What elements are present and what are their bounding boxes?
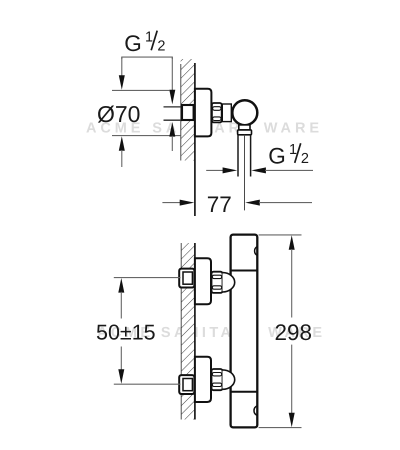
escutcheon flange (top drawing) (195, 89, 212, 137)
lower inlet dome (223, 370, 235, 389)
label 298 (275, 320, 313, 345)
dimension 77 : right arrow at hose axis (245, 200, 312, 206)
dimension 77 : left arrow at wall face (162, 200, 194, 206)
G1/2 wall-thread upper arrow (down, bracket right leg) (169, 57, 175, 104)
watermark bottom (97, 325, 322, 341)
hose neck below ball (239, 125, 250, 130)
G1/2 top label bracket (122, 57, 173, 59)
pipe elbow square in wall (182, 105, 194, 120)
label 50±15 (96, 321, 156, 345)
svg-text:G: G (268, 144, 286, 169)
Ø70 upper arrow (down, shared with bracket left leg) (119, 57, 125, 90)
dimension 50±15 arrows and line (118, 278, 124, 384)
dimension Ø70 extension line top (112, 89, 169, 91)
dimension Ø70 extension line bottom (112, 135, 180, 137)
dimension 298 arrows and line (289, 235, 295, 427)
supply pipe stub behind wall (164, 107, 183, 120)
hose edges (238, 135, 251, 177)
svg-text:298: 298 (275, 320, 313, 345)
svg-text:2: 2 (301, 151, 309, 167)
hose center axis line (244, 135, 246, 211)
body seam lower (231, 391, 258, 393)
hose collar (238, 130, 252, 135)
upper union nut (212, 272, 223, 293)
svg-text:1: 1 (145, 30, 153, 46)
lower union nut (212, 369, 223, 390)
body edge arc detail upper (255, 247, 258, 256)
label G 1/2 (top) (124, 30, 165, 57)
wall (top drawing, hatched section) (181, 59, 195, 161)
label Ø70 (97, 101, 140, 127)
dimension 50±15 extension line lower (114, 383, 181, 385)
lower escutcheon (195, 357, 211, 402)
ball joint circle (232, 100, 257, 125)
svg-text:G: G (124, 31, 142, 56)
svg-text:77: 77 (207, 192, 232, 217)
upper wall nut (179, 269, 194, 288)
Ø70 lower arrow (up) (119, 136, 125, 167)
dimension G1/2 at hose : right arrow (251, 167, 313, 173)
svg-text:1: 1 (289, 142, 297, 158)
label 77 (207, 192, 232, 217)
dimension 298 extension line bottom (259, 427, 302, 429)
svg-text:50±15: 50±15 (96, 321, 156, 345)
mixer body (231, 235, 258, 428)
upper inlet dome (223, 273, 235, 292)
G1/2 wall-thread lower arrow (up) (169, 122, 175, 151)
svg-text:Ø70: Ø70 (97, 101, 140, 127)
connector body (top drawing) (222, 104, 231, 122)
dimension 50±15 extension line upper (114, 277, 181, 279)
body edge arc detail lower (254, 406, 257, 416)
body seam upper (231, 270, 258, 272)
label G 1/2 (hose) (268, 142, 309, 168)
union nut (top drawing) (212, 103, 222, 122)
svg-text:2: 2 (157, 39, 165, 55)
dimension G1/2 at hose : left arrow (206, 167, 237, 173)
lower wall nut (179, 375, 194, 394)
watermark top (86, 120, 319, 136)
wall face line (top drawing) (194, 63, 196, 216)
dimension 298 extension line top (259, 234, 302, 236)
upper escutcheon (195, 258, 211, 304)
wall (bottom drawing, hatched section) (181, 243, 195, 420)
